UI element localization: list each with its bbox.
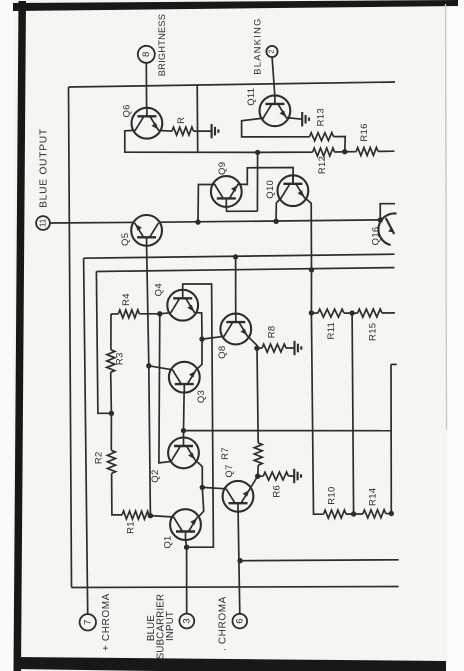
wire resistor string R3 R2 R1 <box>107 314 174 519</box>
label R7 <box>220 447 231 460</box>
node R14 right junction <box>389 511 394 516</box>
ground G2 (Q11 emitter) <box>302 112 309 126</box>
wire Q2 base to node <box>183 431 185 438</box>
node R1 / Q5 base bus junction <box>148 513 153 518</box>
border frame top bar <box>13 0 458 11</box>
label Q10 <box>265 180 276 199</box>
label Q3 <box>196 390 207 403</box>
label R11 <box>326 322 337 340</box>
label R <box>176 117 187 124</box>
wire R4 to Q4 collector <box>111 310 171 318</box>
label Q7 <box>224 464 235 477</box>
node rail B / Q8 base junction <box>233 254 238 259</box>
node Q2 emitter / Q7 collector junction <box>200 485 205 490</box>
svg-text:+ CHROMA: + CHROMA <box>101 593 112 651</box>
label R14 <box>368 488 379 506</box>
svg-text:Q11: Q11 <box>246 88 257 106</box>
transistor Q9 <box>211 176 242 207</box>
wire Q6 emitter to resistor R and ground <box>159 127 212 135</box>
svg-text:6: 6 <box>234 618 245 623</box>
ground G4 (R6) <box>294 469 301 483</box>
ground G3 (R8) <box>295 341 302 355</box>
svg-text:8: 8 <box>141 52 152 57</box>
label BLUE <box>146 615 157 641</box>
wire Q3 emitter up to node <box>196 339 202 370</box>
wire Q8 base to rail B <box>235 257 237 314</box>
svg-text:Q7: Q7 <box>224 464 235 477</box>
wire 351-vertical down to R14 <box>352 313 354 514</box>
label SUBCARRIER <box>156 594 167 660</box>
wire terminal 11 to Q5 emitter <box>50 221 134 224</box>
border frame bottom bar <box>14 657 446 671</box>
svg-text:Q10: Q10 <box>265 180 276 199</box>
label R10 <box>327 486 338 504</box>
svg-text:11: 11 <box>39 218 48 227</box>
wire Q11 collector loop through resistor R13 <box>242 118 346 152</box>
svg-text:3: 3 <box>181 618 192 623</box>
wire Q5 collector line to Q16 <box>159 220 380 222</box>
node Q2/Q3 base junction <box>181 428 186 433</box>
svg-text:Q6: Q6 <box>121 104 132 117</box>
wire Q7 emitter to node <box>250 476 258 489</box>
label BLANKING <box>253 17 263 74</box>
svg-text:R4: R4 <box>121 293 132 306</box>
svg-text:Q8: Q8 <box>217 346 228 359</box>
node rail C / Q10 emitter junction <box>309 267 314 272</box>
svg-text:R6: R6 <box>271 485 282 498</box>
label INPUT <box>165 611 176 641</box>
wire Q9 emitter to Q10 base staircase <box>238 168 293 185</box>
svg-text:2: 2 <box>269 49 276 53</box>
svg-text:R7: R7 <box>220 447 231 460</box>
svg-text:. CHROMA: . CHROMA <box>218 596 229 651</box>
node Q9 collector junction <box>195 219 200 224</box>
wire rail Q from terminal-6 line <box>240 559 399 562</box>
label Q5 <box>120 233 131 246</box>
transistor Q1 <box>170 509 201 540</box>
wire bus B to terminal 7 <box>84 258 88 614</box>
wire V2 vertical to Q2 collector <box>159 314 172 463</box>
transistor Q5 <box>131 215 162 246</box>
node R3-R2 junction <box>109 411 114 416</box>
node terminal-6 rail junction <box>237 558 242 563</box>
wire R7 string down <box>254 348 262 476</box>
border frame left bar <box>14 1 27 671</box>
svg-text:R14: R14 <box>368 488 379 506</box>
label R8 <box>267 326 278 339</box>
svg-text:R1: R1 <box>126 521 137 534</box>
label Q1 <box>162 535 173 548</box>
transistor Q8 <box>220 314 251 345</box>
label R15 <box>368 323 379 341</box>
label Q8 <box>217 346 228 359</box>
wire terminal 8 to Q6 base <box>145 63 147 108</box>
svg-text:R16: R16 <box>359 123 370 141</box>
wire node to Q7 collector <box>202 487 226 488</box>
terminal 7 +CHROMA <box>80 614 96 630</box>
ground G1 (R) <box>212 124 219 138</box>
label BRIGHTNESS <box>157 14 167 76</box>
label BLUE OUTPUT <box>39 128 50 208</box>
transistor Q10 <box>278 175 309 206</box>
svg-text:Q9: Q9 <box>217 162 228 175</box>
transistor Q2 <box>168 438 199 469</box>
wire node to Q8 collector <box>202 336 224 339</box>
svg-text:R3: R3 <box>115 352 126 365</box>
wire stub right of 392-vertical <box>391 363 397 365</box>
svg-text:R11: R11 <box>326 322 337 340</box>
wire Q3 collector to V1 <box>149 366 173 370</box>
wire terminal 2 to Q11 base <box>272 57 275 95</box>
label Q11 <box>246 88 257 106</box>
label R13 <box>316 108 327 126</box>
wire Q16 bracket <box>380 204 395 220</box>
wire Q11 emitter to ground <box>287 118 302 120</box>
wire base node line right <box>184 430 392 432</box>
svg-text:BRIGHTNESS: BRIGHTNESS <box>157 14 167 76</box>
node Q10 collector junction <box>273 219 278 224</box>
node V1 / Q3 collector junction <box>146 363 151 368</box>
wire Q5 base bus V1 <box>147 246 151 516</box>
page edge right line <box>446 4 447 430</box>
transistor Q4 <box>167 290 198 321</box>
svg-text:INPUT: INPUT <box>165 611 176 641</box>
wire Q9 collector to collector rail <box>198 185 215 222</box>
node R4 / V2 junction <box>157 311 162 316</box>
wire Q4 base path down to Q1 base <box>183 284 214 547</box>
label R12 <box>317 156 328 174</box>
wire bus A left vertical <box>69 87 72 588</box>
label R1 <box>126 521 137 534</box>
svg-text:Q4: Q4 <box>153 283 164 296</box>
label R4 <box>121 293 132 306</box>
wire Q10 collector leg <box>276 198 281 222</box>
svg-text:R2: R2 <box>94 451 105 464</box>
node R11/R15 junction <box>349 310 354 315</box>
svg-text:Q1: Q1 <box>162 535 173 548</box>
label Q4 <box>153 283 164 296</box>
terminal 2 BLANKING <box>266 46 277 57</box>
label + CHROMA <box>101 593 112 651</box>
node R7/R6/Q7 emitter junction <box>255 474 260 479</box>
wire top rail <box>69 82 396 87</box>
svg-text:BLANKING: BLANKING <box>253 17 263 74</box>
node R11 / Q10 emitter junction <box>309 310 314 315</box>
svg-text:R12: R12 <box>317 156 328 174</box>
svg-text:R8: R8 <box>267 326 278 339</box>
label Q9 <box>217 162 228 175</box>
svg-text:R13: R13 <box>316 108 327 126</box>
wire Q2 emitter down <box>195 460 202 487</box>
wire Q7 base to terminal 6 <box>238 512 240 614</box>
label Q2 <box>150 469 161 482</box>
label Q6 <box>121 104 132 117</box>
wire 392-vertical with stub <box>390 364 392 513</box>
svg-text:Q3: Q3 <box>196 390 207 403</box>
svg-text:Q2: Q2 <box>150 469 161 482</box>
wire Q8 emitter through R8 to ground <box>248 336 295 352</box>
wire Q1 base to terminal 3 <box>186 540 187 614</box>
transistor Q11 <box>260 95 291 126</box>
label R6 <box>271 485 282 498</box>
svg-text:Q5: Q5 <box>120 233 131 246</box>
terminal 8 BRIGHTNESS <box>138 46 155 63</box>
wire bus C to R3 string <box>96 272 111 414</box>
terminal 6 -CHROMA <box>233 614 248 629</box>
wire R6 to ground <box>258 472 294 480</box>
wire R14 row <box>354 510 392 518</box>
label R2 <box>94 451 105 464</box>
node R10/R14 junction <box>351 511 356 516</box>
wire top rail to 152-line vertical <box>196 85 199 152</box>
wire Q9 base jog <box>226 207 257 211</box>
wire Q10 emitter bus down to R10 <box>305 198 354 519</box>
svg-text:Q16: Q16 <box>370 226 381 245</box>
transistor Q3 <box>169 362 200 393</box>
transistor Q16 (cut off) <box>378 213 396 245</box>
svg-text:7: 7 <box>82 620 93 625</box>
wire Q6 collector loop to 152-line with R12 and R16 <box>125 130 395 156</box>
wire bottom rail P <box>72 587 399 588</box>
label R3 <box>115 352 126 365</box>
svg-text:R: R <box>176 117 187 124</box>
transistor Q7 <box>223 481 254 512</box>
svg-text:BLUE OUTPUT: BLUE OUTPUT <box>39 128 50 208</box>
wire 152-line to Q9 base vertical <box>256 152 258 211</box>
wire R11 R15 row <box>311 309 395 317</box>
node R13/R12/R16 junction <box>342 149 347 154</box>
terminal 3 BLUE SUBCARRIER INPUT <box>179 614 194 629</box>
node Q16 junction <box>378 217 383 222</box>
wire Q3 base down to node <box>183 393 186 431</box>
node 152-line junction <box>255 150 260 155</box>
label R16 <box>359 123 370 141</box>
terminal 11 BLUE OUTPUT <box>36 216 50 230</box>
page margin left <box>0 0 13 671</box>
transistor Q6 <box>132 108 163 139</box>
label Q16 <box>370 226 381 245</box>
svg-text:R10: R10 <box>327 486 338 504</box>
wire Q4 emitter down to node <box>195 313 203 340</box>
wire rail B <box>84 254 395 258</box>
node Q1/Q4 base junction <box>184 545 189 550</box>
wire rail C <box>96 268 394 272</box>
node Q8 emitter / R7 junction <box>254 346 259 351</box>
page margin right <box>448 0 464 671</box>
node Q4/Q3 emitter junction <box>199 336 204 341</box>
label - CHROMA <box>218 596 229 651</box>
svg-text:R15: R15 <box>368 323 379 341</box>
wire node down to Q1 emitter <box>198 487 204 517</box>
